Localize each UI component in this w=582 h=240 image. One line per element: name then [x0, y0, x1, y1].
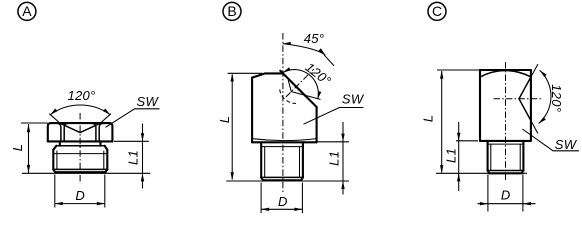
svg-text:D: D — [75, 188, 85, 203]
end chamfer line C — [488, 170, 524, 172]
L1 arrow top B — [341, 134, 344, 142]
D extension right C — [522, 175, 524, 212]
head bottom edge B — [252, 141, 317, 143]
L arrow top A — [27, 124, 30, 132]
120 arrow top B — [283, 67, 291, 72]
left extension line C — [456, 140, 478, 142]
head bottom edge C — [480, 140, 531, 142]
center line C — [505, 62, 507, 180]
thread outer left B — [260, 142, 262, 177]
svg-text:L1: L1 — [125, 150, 140, 165]
dimension L1 line C — [458, 122, 460, 191]
D arrow left B — [261, 208, 269, 211]
svg-text:SW: SW — [342, 91, 365, 106]
svg-text:A: A — [22, 3, 32, 19]
dimension L line C — [441, 71, 443, 173]
L arrow bottom C — [440, 165, 443, 173]
thread minor left B — [264, 147, 266, 178]
D arrow right B — [294, 208, 302, 211]
shoulder line A — [56, 145, 104, 147]
dimension L line B — [231, 75, 233, 180]
L arrow top B — [231, 74, 234, 82]
dimension L1 line A — [142, 124, 144, 189]
horizontal axis C — [494, 98, 542, 100]
variant label B — [223, 2, 241, 20]
bottom extension line A — [22, 172, 150, 174]
D dimension line A — [55, 203, 105, 205]
neck left A — [59, 141, 61, 145]
top extension line B — [228, 72, 262, 74]
svg-text:SW: SW — [555, 137, 578, 152]
thread minor right A — [103, 151, 105, 170]
hex facet line A1 — [57, 123, 61, 141]
L1 arrow top C — [457, 133, 460, 141]
cone axis B — [286, 69, 314, 97]
head bottom edge A — [48, 140, 113, 142]
svg-text:45°: 45° — [304, 31, 325, 46]
svg-text:120°: 120° — [549, 84, 564, 112]
D arrow right A — [97, 202, 105, 205]
D extension right A — [104, 175, 106, 208]
right extension line A — [114, 140, 149, 142]
variant label A — [18, 2, 36, 20]
L1 arrow bottom A — [141, 173, 144, 181]
hex facet line A4 — [99, 123, 103, 141]
D dimension line B — [261, 208, 302, 210]
center line A — [79, 113, 81, 184]
bottom face B — [263, 179, 301, 181]
end chamfer line A — [53, 168, 107, 170]
thread minor left C — [490, 144, 492, 170]
angle arc 120deg C — [539, 70, 551, 123]
funnel seat V B — [288, 80, 303, 95]
dimension L1 line B — [342, 122, 344, 195]
thread minor right B — [299, 147, 301, 178]
head right edge B — [316, 107, 318, 142]
svg-text:B: B — [227, 3, 236, 19]
head bottom chamfer arc B — [252, 139, 317, 141]
L1 arrow bottom B — [341, 181, 344, 189]
thread start line B — [261, 146, 303, 148]
L arrow bottom B — [231, 172, 234, 180]
arc arrow right A — [103, 109, 110, 115]
45 extension tick B — [324, 55, 334, 66]
hex facet line A3 — [92, 123, 96, 141]
D arrow left A — [55, 202, 63, 205]
120 arrow bottom B — [318, 91, 322, 99]
bottom corner chamfer left B — [261, 178, 263, 181]
hex head outline A — [48, 123, 113, 141]
bottom corner chamfer left C — [488, 171, 490, 174]
bottom extension line B — [226, 180, 349, 182]
angle arc 120deg A — [50, 105, 110, 115]
bottom face A — [55, 171, 105, 173]
svg-text:L1: L1 — [326, 151, 341, 166]
45 arrow left B — [283, 42, 291, 45]
cone extension left A — [49, 114, 60, 123]
svg-text:L1: L1 — [444, 148, 459, 163]
L arrow top C — [440, 71, 443, 79]
funnel seat V C — [519, 79, 530, 119]
D extension left B — [260, 183, 262, 214]
head left edge C — [479, 70, 481, 141]
svg-text:L: L — [217, 116, 232, 124]
svg-text:L: L — [421, 115, 436, 123]
head top edge B — [265, 72, 283, 74]
D extension left C — [487, 175, 489, 212]
thread start line A — [53, 153, 107, 155]
D dimension line C — [478, 203, 536, 205]
svg-text:L: L — [10, 144, 25, 152]
thread outer right B — [302, 142, 304, 177]
angle arc 120deg B — [283, 70, 318, 100]
cone extension bottom C — [530, 119, 538, 134]
svg-text:C: C — [432, 3, 442, 19]
thread outer left A — [52, 150, 54, 170]
hex facet line A2 — [64, 123, 68, 141]
end chamfer line B — [261, 176, 303, 178]
thread outer right A — [106, 150, 108, 170]
funnel seat V A — [60, 123, 101, 132]
thread outer left C — [487, 141, 489, 171]
dome arc C — [480, 71, 531, 77]
SW leader C — [522, 129, 579, 151]
120 arrow bottom C — [539, 117, 546, 124]
bottom corner chamfer right B — [301, 178, 303, 181]
top extension line A — [21, 122, 48, 124]
arc arrow left A — [50, 109, 57, 115]
bottom extension line C — [436, 172, 527, 174]
head right edge C — [530, 70, 532, 141]
dimension L line A — [28, 124, 30, 173]
cone extension top C — [530, 64, 538, 79]
L1 arrow bottom C — [457, 173, 460, 181]
lower cone extension B — [304, 95, 321, 99]
thread runout chamfer right A — [105, 146, 108, 150]
45 arrow right B — [319, 48, 326, 55]
svg-text:SW: SW — [137, 94, 160, 109]
svg-text:D: D — [501, 187, 511, 202]
thread minor left A — [56, 151, 58, 170]
svg-text:D: D — [278, 194, 288, 209]
bottom face C — [489, 172, 521, 174]
thread outer right C — [522, 141, 524, 171]
head top edge C — [480, 69, 531, 71]
thread runout chamfer left A — [53, 146, 56, 150]
hidden funnel arc B — [280, 90, 296, 104]
D arrow right C — [523, 202, 531, 205]
L1 arrow top A — [141, 133, 144, 141]
SW leader B — [304, 108, 364, 125]
bottom corner chamfer left A — [53, 170, 55, 173]
neck right A — [99, 141, 101, 145]
bottom corner chamfer right A — [105, 170, 107, 173]
bottom corner chamfer right C — [522, 171, 524, 174]
120 arrow top C — [540, 70, 547, 77]
slope 45 face B — [280, 71, 316, 107]
seat rim line B — [291, 82, 306, 97]
head left edge B — [251, 78, 253, 143]
angle arc 45deg B — [283, 44, 326, 56]
D arrow left C — [480, 202, 488, 205]
L arrow bottom A — [27, 165, 30, 173]
thread minor right C — [519, 144, 521, 170]
cone extension right A — [100, 114, 111, 123]
right extension line B — [318, 141, 350, 143]
top extension line C — [437, 69, 480, 71]
variant label C — [428, 2, 446, 20]
svg-text:120°: 120° — [67, 88, 95, 103]
D extension left A — [54, 175, 56, 208]
center line B — [282, 33, 284, 192]
head top chamfer B — [252, 73, 265, 77]
thread start line C — [488, 143, 524, 145]
D extension right B — [301, 183, 303, 214]
SW leader A — [106, 109, 160, 128]
